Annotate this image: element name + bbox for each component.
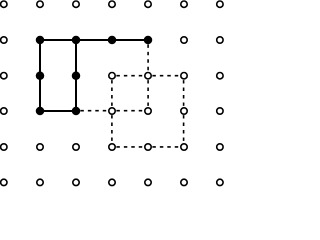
wire dashed y=75.5 span (112,75.5)-(148,75.5) (112, 75, 148, 77)
node open (5,4) grid point (145, 179, 151, 185)
node open (5,0) grid point (1, 179, 7, 185)
node open (0,1) grid point (37, 1, 43, 7)
wire solid bottom edge (40,111)-(76,111) (40, 110, 76, 112)
node open (5,5) grid point (181, 179, 187, 185)
node open (5,6) grid point (217, 179, 223, 185)
node open (1,5) grid point (181, 37, 187, 43)
node open (0,0) grid point (1, 1, 7, 7)
node open (3,5) dashed-figure vertex (181, 108, 187, 114)
node open (2,4) dashed-figure vertex (145, 73, 151, 79)
node open (5,1) grid point (37, 179, 43, 185)
node filled (3,2) (72, 107, 81, 116)
wire dashed x=148 span (148,40)-(148,75.5) (147, 40, 149, 76)
node open (2,6) grid point (217, 73, 223, 79)
node filled (3,1) (36, 107, 45, 116)
node open (0,6) grid point (217, 1, 223, 7)
node open (1,6) grid point (217, 37, 223, 43)
node open (3,4) dashed-figure vertex (145, 108, 151, 114)
node open (3,0) grid point (1, 108, 7, 114)
node open (2,0) grid point (1, 73, 7, 79)
wire dashed y=111 span (112,111)-(148,111) (112, 110, 148, 112)
wire solid left edge (40,40)-(40,111) (39, 40, 41, 111)
node open (4,2) grid point (73, 144, 79, 150)
wire dashed x=148 span (148,75.5)-(148,111) (147, 76, 149, 111)
wire dashed x=184 span (184,111)-(184,147) (183, 111, 185, 147)
wire dashed y=111 span (76,111)-(112,111) (76, 110, 112, 112)
node open (0,3) grid point (109, 1, 115, 7)
node open (5,3) grid point (109, 179, 115, 185)
node open (3,3) dashed-figure vertex (109, 108, 115, 114)
node open (0,5) grid point (181, 1, 187, 7)
node open (0,2) grid point (73, 1, 79, 7)
wire dashed y=75.5 span (148,75.5)-(184,75.5) (148, 75, 184, 77)
wire dashed y=147 span (112,147)-(148,147) (112, 146, 148, 148)
node filled (2,2) (72, 71, 81, 80)
node filled (2,1) (36, 71, 45, 80)
node filled (1,4) (144, 36, 153, 45)
node open (4,0) grid point (1, 144, 7, 150)
node open (4,3) dashed-figure vertex (109, 144, 115, 150)
node open (5,2) grid point (73, 179, 79, 185)
node open (4,4) dashed-figure vertex (145, 144, 151, 150)
node open (0,4) grid point (145, 1, 151, 7)
node open (1,0) grid point (1, 37, 7, 43)
node open (4,6) grid point (217, 144, 223, 150)
wire solid middle vertical edge (76,40)-(76,111) (75, 40, 77, 111)
node filled (1,1) (36, 36, 45, 45)
wire solid top edge (40,40)-(148,40) (40, 39, 148, 41)
node open (4,1) grid point (37, 144, 43, 150)
node open (4,5) dashed-figure vertex (181, 144, 187, 150)
wire dashed x=112 span (112,111)-(112,147) (111, 111, 113, 147)
node open (2,3) dashed-figure vertex (109, 73, 115, 79)
node filled (1,3) (108, 36, 117, 45)
wire dashed x=112 span (112,75.5)-(112,111) (111, 76, 113, 111)
node filled (1,2) (72, 36, 81, 45)
wire dashed y=147 span (148,147)-(184,147) (148, 146, 184, 148)
node open (2,5) dashed-figure vertex (181, 73, 187, 79)
wire dashed x=184 span (184,75.5)-(184,111) (183, 76, 185, 111)
node open (3,6) grid point (217, 108, 223, 114)
